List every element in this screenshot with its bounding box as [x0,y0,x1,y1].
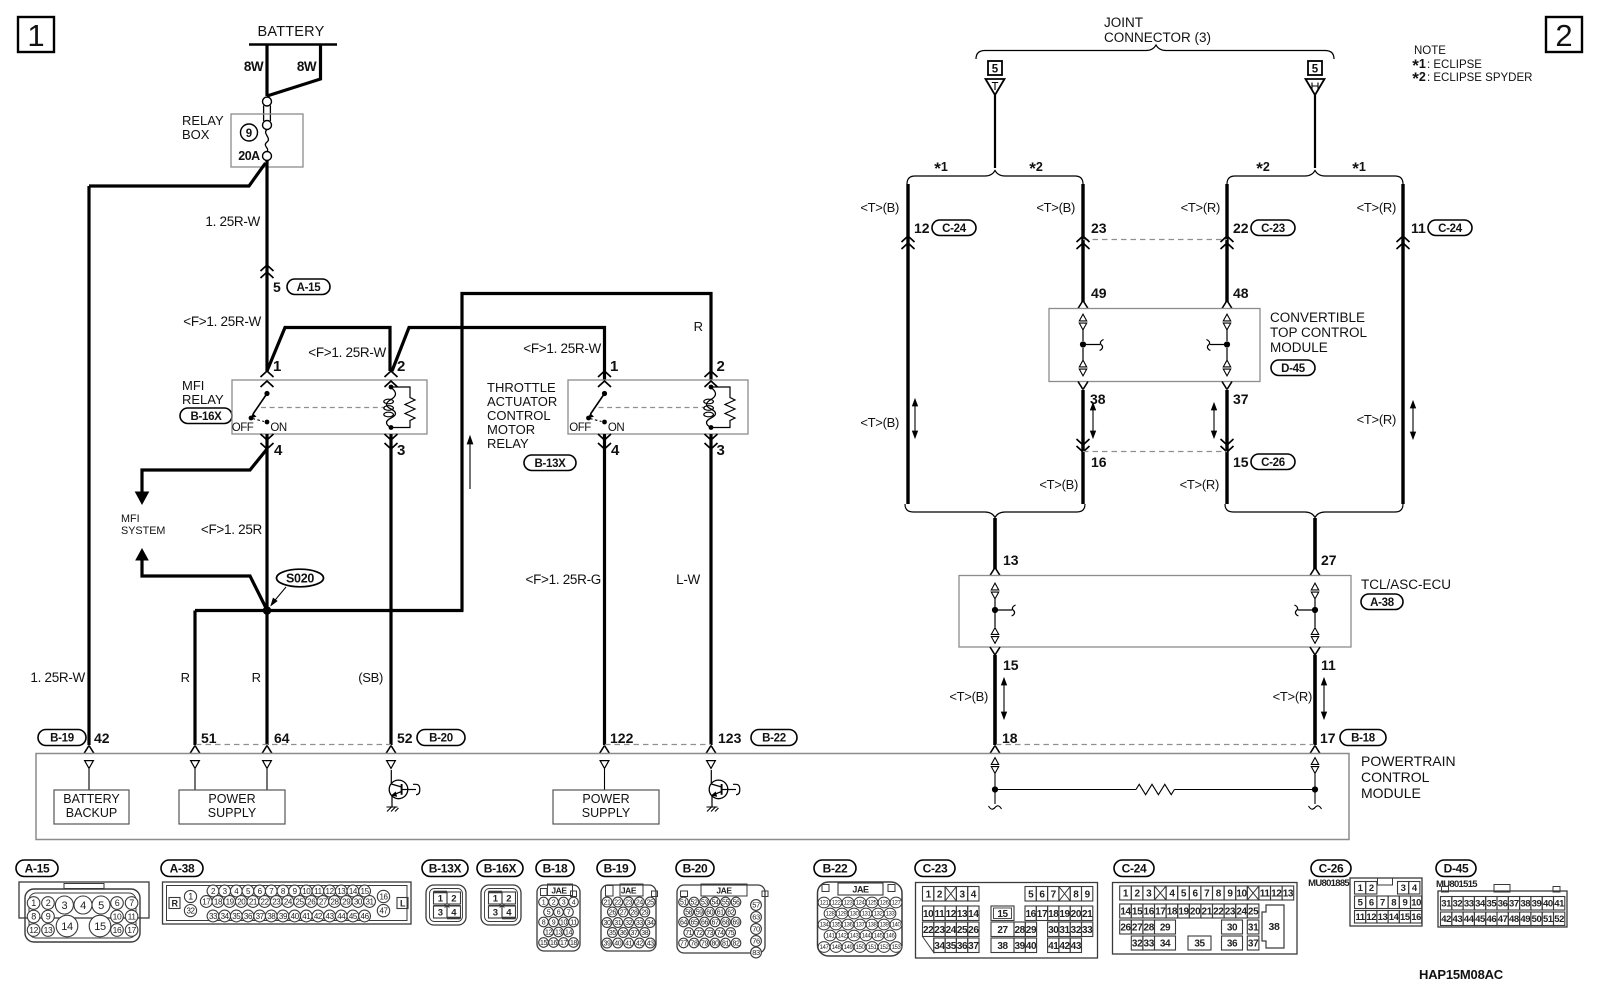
svg-text:50: 50 [1532,914,1542,925]
svg-text:<T>(R): <T>(R) [1181,200,1220,215]
wire bus line 4 <T>(R) eclipse [1401,184,1404,504]
connector C-26 pins [1355,882,1366,895]
svg-text:12: 12 [1271,889,1282,900]
svg-text:16: 16 [1411,912,1421,923]
svg-text:26: 26 [307,897,316,906]
svg-text:3: 3 [438,907,443,918]
TCL internal terminal left [991,583,998,590]
fork line2 into module [1078,301,1088,309]
PCM pin 123 terminal triangle [707,761,716,769]
svg-text:15: 15 [1233,454,1249,470]
svg-text:16: 16 [113,925,122,935]
svg-text:12: 12 [545,930,552,937]
svg-text:25: 25 [296,897,305,906]
wire bus line 3 <T>(R) spyder upper [1225,184,1228,302]
wire bus line 2 <T>(B) spyder upper [1081,184,1084,302]
svg-text:17: 17 [1037,909,1048,920]
wire battery lead right 8W [267,45,321,97]
svg-text:22: 22 [614,900,621,907]
svg-text:10: 10 [302,887,311,896]
connector B-22 label [814,860,856,877]
svg-text:11: 11 [128,912,137,922]
svg-text:: ECLIPSE: : ECLIPSE [1427,59,1482,71]
connector D-45 label [1436,860,1476,877]
svg-text:SUPPLY: SUPPLY [208,806,257,820]
svg-text:67: 67 [712,920,719,927]
svg-text:42: 42 [636,941,643,948]
svg-text:51: 51 [1543,914,1554,925]
svg-text:13: 13 [957,909,968,920]
connector C-23 label [915,860,955,877]
svg-text:2: 2 [717,358,725,375]
svg-text:16: 16 [1091,454,1107,470]
pin 42 label B-19 [38,730,86,746]
svg-text:78: 78 [691,941,698,948]
svg-text:24: 24 [1236,907,1247,918]
connector B-19 pins [602,897,612,907]
svg-text:B-22: B-22 [762,733,786,745]
wire merged left to TCL pin 13 [993,518,997,569]
svg-text:133: 133 [886,912,896,918]
svg-text:17: 17 [1320,730,1336,746]
connector A-38 pins [184,890,196,902]
page corner index box 2 [1546,17,1582,52]
svg-text:60: 60 [706,910,713,917]
svg-text:6: 6 [1039,889,1045,900]
connector B-22 pins [818,897,830,908]
svg-text:1: 1 [188,892,193,902]
svg-text:5: 5 [1312,64,1319,76]
svg-text:34: 34 [1475,899,1486,910]
svg-text:2: 2 [1135,889,1141,900]
svg-text:76: 76 [752,937,760,946]
svg-text:73: 73 [706,930,713,937]
svg-text:5: 5 [1181,889,1187,900]
svg-text:41: 41 [1554,899,1565,910]
PCM pin 52 terminal triangle [387,761,396,769]
svg-text:<T>(B): <T>(B) [1039,477,1078,492]
svg-text:46: 46 [1486,914,1496,925]
svg-text:38: 38 [1269,921,1280,933]
svg-text:131: 131 [862,912,872,918]
svg-text:<F>1. 25R-W: <F>1. 25R-W [523,341,601,356]
module internal terminal left (pin49-38) [1079,314,1086,321]
connector B-18 pins [539,897,549,907]
svg-text:OFF: OFF [569,422,591,434]
svg-text:151: 151 [868,945,878,951]
svg-text:25: 25 [957,925,968,936]
svg-text:36: 36 [1227,939,1238,950]
ground for Q1 [387,807,399,812]
svg-text:S020: S020 [286,572,314,586]
svg-text:150: 150 [856,945,866,951]
svg-text:11: 11 [1321,657,1336,673]
svg-text:B-20: B-20 [683,861,708,875]
powertrain control module box [36,754,1349,840]
svg-text:139: 139 [880,923,890,929]
wire MFI pin 4 to splice S020 [265,434,268,611]
svg-text:16: 16 [1025,909,1036,920]
svg-text:10: 10 [1411,898,1421,909]
svg-text:3: 3 [397,442,405,459]
svg-text:40: 40 [1026,941,1037,952]
svg-text:2: 2 [937,889,943,900]
fusible link 9 20A in relay box [263,97,272,106]
svg-text:15: 15 [1132,907,1143,918]
svg-text:136: 136 [844,923,854,929]
svg-text:142: 142 [838,934,848,940]
direction arrow line3 [1213,408,1215,433]
svg-text:2: 2 [506,893,511,904]
svg-text:3: 3 [493,907,498,918]
dashed connector row right [996,744,1314,746]
wire branch MFI relay pin1 to pin2 [267,328,390,372]
svg-text:<F>1. 25R: <F>1. 25R [201,522,263,537]
svg-text:54: 54 [712,900,719,907]
svg-text:11: 11 [1260,889,1271,900]
svg-text:130: 130 [850,912,860,918]
svg-text:148: 148 [832,945,842,951]
connector A-15 pin 5 pass-through chevrons [261,265,274,271]
connector A-15 pins [27,897,40,910]
wire R to PCM pin 51 [193,611,196,746]
svg-text:32: 32 [1453,899,1463,910]
svg-text:31: 31 [614,920,621,927]
connector A-38 body [163,882,412,924]
TCL/ASC-ECU box [959,576,1351,648]
svg-text:45: 45 [349,912,358,921]
svg-text:35: 35 [946,941,957,952]
svg-text:34: 34 [647,920,654,927]
svg-text:28: 28 [1144,923,1155,934]
wire branch to MFI system (out arrow) [142,449,267,494]
svg-text:8W: 8W [244,59,264,74]
svg-text:<T>(R): <T>(R) [1180,477,1219,492]
svg-text:3: 3 [1146,889,1152,900]
svg-text:13: 13 [337,887,346,896]
connector B-20 body [677,885,765,953]
svg-text:34: 34 [934,941,945,952]
svg-text:3: 3 [1401,883,1406,894]
svg-text:10: 10 [560,920,567,927]
svg-text:42: 42 [1441,914,1451,925]
svg-text:137: 137 [856,923,866,929]
svg-text:47: 47 [379,906,388,915]
svg-text:58: 58 [685,910,692,917]
node pin18 internal [992,786,998,792]
throttle relay actuation dashed link [599,407,706,409]
svg-text:34: 34 [221,912,230,921]
svg-text:23: 23 [1091,220,1107,236]
svg-text:THROTTLE: THROTTLE [487,380,556,395]
svg-text:11: 11 [570,920,577,927]
fork line3 out of module [1222,382,1232,390]
chevrons line1 C-24 crossing [902,236,915,242]
svg-text:27: 27 [1321,552,1337,568]
svg-text:145: 145 [874,934,884,940]
svg-text:16: 16 [1144,907,1155,918]
svg-text:43: 43 [647,941,654,948]
TCL internal terminal right [1311,583,1318,590]
svg-text:6: 6 [115,898,120,908]
svg-text:C-23: C-23 [1261,223,1285,235]
svg-text:POWER: POWER [582,792,629,806]
svg-text:141: 141 [826,934,836,940]
svg-text:POWER: POWER [208,792,255,806]
joint connector grouping brace top [976,45,1334,59]
connector B-16X body [481,885,521,925]
svg-text:1: 1 [926,889,932,900]
svg-text:83: 83 [752,948,760,957]
svg-text:49: 49 [1520,914,1530,925]
svg-text:36: 36 [1498,899,1508,910]
MFI relay box [232,380,427,434]
wire R riser to throttle relay pin 2 [462,294,711,611]
svg-text:25: 25 [1248,907,1259,918]
svg-text:77: 77 [680,941,687,948]
svg-text:65: 65 [691,920,698,927]
svg-text:57: 57 [752,901,760,910]
split brace right [1227,171,1403,185]
svg-text:26: 26 [1120,923,1131,934]
merge brace right [1225,504,1403,518]
svg-text:<T>(B): <T>(B) [949,689,988,704]
svg-text:2: 2 [397,358,405,375]
svg-text:8: 8 [31,912,36,922]
svg-text:8: 8 [1216,889,1222,900]
svg-text:8W: 8W [297,59,317,74]
svg-text:1: 1 [27,18,44,53]
throttle relay coil suppression resistor [711,387,735,428]
svg-text:4: 4 [274,442,283,459]
svg-text:BATTERY: BATTERY [63,792,120,806]
connector D-45 body [1438,891,1567,927]
pigtail ground pin18 [994,790,996,805]
connector A-15 body [19,882,149,918]
svg-text:23: 23 [1225,907,1236,918]
svg-text:MFI: MFI [121,513,140,525]
chevrons line2 [1077,236,1090,242]
svg-text:1. 25R-W: 1. 25R-W [30,670,85,685]
svg-text:: ECLIPSE SPYDER: : ECLIPSE SPYDER [1427,72,1532,84]
connector C-24 label [1114,860,1154,877]
svg-text:21: 21 [249,897,258,906]
svg-text:3: 3 [717,442,725,459]
svg-text:39: 39 [1014,941,1025,952]
svg-text:28: 28 [631,910,638,917]
dashed connector row left [196,744,391,746]
svg-text:<T>(R): <T>(R) [1273,689,1312,704]
svg-text:MU801515: MU801515 [1436,879,1478,890]
throttle relay switch OFF/ON [602,391,607,396]
svg-text:2: 2 [552,900,556,907]
svg-text:12: 12 [29,925,38,935]
svg-text:144: 144 [862,934,872,940]
dashed connector row mid [605,744,711,746]
svg-text:72: 72 [696,930,703,937]
svg-text:31: 31 [365,897,374,906]
throttle relay pin 1 connector chevrons [598,371,611,377]
connector C-23 body [916,883,1098,959]
svg-text:18: 18 [570,940,577,947]
svg-text:3: 3 [562,900,566,907]
svg-text:43: 43 [326,912,335,921]
svg-text:MFI: MFI [182,378,204,393]
svg-text:ON: ON [608,422,624,434]
wire joint connector right down [1314,95,1316,168]
svg-text:79: 79 [701,941,708,948]
battery backup block [54,790,129,824]
connector B-13X pins [434,892,448,904]
forks PCM pins [84,746,94,754]
svg-text:21: 21 [1082,909,1093,920]
svg-text:MODULE: MODULE [1361,785,1421,801]
svg-text:124: 124 [856,901,866,907]
svg-text:11: 11 [935,909,946,920]
svg-text:43: 43 [1071,941,1082,952]
wire TCL pin 15 to PCM pin 18 [993,655,997,745]
svg-text:14: 14 [968,909,979,920]
svg-text:7: 7 [1051,889,1057,900]
svg-text:TOP CONTROL: TOP CONTROL [1270,325,1368,340]
merge brace left [905,504,1085,518]
MFI relay actuation dashed link [261,407,385,409]
joint connector symbol left (5) [988,61,1002,75]
svg-text:SYSTEM: SYSTEM [121,525,165,537]
svg-text:20: 20 [1071,909,1082,920]
wire branch to battery backup pin 42 [89,163,266,186]
svg-text:138: 138 [868,923,878,929]
wire bus line2 lower [1081,390,1084,504]
svg-text:SUPPLY: SUPPLY [582,806,631,820]
wire bus line3 lower [1225,390,1228,504]
svg-text:6: 6 [1369,898,1374,909]
svg-text:35: 35 [1486,899,1497,910]
throttle relay coil [707,388,716,428]
svg-text:JAE: JAE [551,886,567,896]
svg-text:MU801885: MU801885 [1308,878,1350,889]
svg-text:25: 25 [647,900,654,907]
svg-text:2: 2 [451,893,456,904]
svg-text:21: 21 [1202,907,1213,918]
PCM pin 18 terminal triangles [991,758,998,765]
svg-text:34: 34 [1160,939,1171,950]
svg-text:C-23: C-23 [923,861,948,875]
svg-text:RELAY: RELAY [182,392,224,407]
svg-text:R: R [252,670,261,685]
svg-text:23: 23 [625,900,632,907]
svg-text:CONNECTOR (3): CONNECTOR (3) [1104,30,1211,45]
connector D-45 pins [1441,897,1452,911]
connector B-18 label [536,860,574,877]
svg-text:22: 22 [261,897,270,906]
svg-text:32: 32 [1071,925,1082,936]
svg-text:48: 48 [1509,914,1519,925]
transistor Q1 (pin 52 driver) [389,780,408,799]
svg-text:CONVERTIBLE: CONVERTIBLE [1270,310,1365,325]
wire L-W throttle pin 3 to PCM pin 123 [709,434,712,745]
chevrons line4 C-24 crossing [1397,236,1410,242]
connector B-16X label [477,860,523,877]
connector B-19 label [597,860,635,877]
svg-text:JAE: JAE [852,885,869,895]
svg-text:68: 68 [722,920,729,927]
svg-text:44: 44 [1464,914,1475,925]
connector B-18 body [537,885,580,951]
svg-text:59: 59 [696,910,703,917]
connector A-38 R key [169,898,180,909]
svg-text:42: 42 [94,730,110,746]
svg-text:32: 32 [625,920,632,927]
svg-text:37: 37 [256,912,265,921]
svg-text:41: 41 [625,941,632,948]
pigtail ground pin17 [1314,790,1316,805]
current flow arrow up [469,441,471,489]
svg-text:44: 44 [337,912,346,921]
connector B-13X body [426,885,466,925]
svg-text:A-15: A-15 [25,861,50,875]
svg-text:61: 61 [717,910,724,917]
svg-text:152: 152 [880,945,890,951]
dashed link 16-15 [1083,451,1227,453]
wire branch MFI pin2 to throttle relay pin1 [392,328,605,381]
svg-text:C-26: C-26 [1261,457,1285,469]
svg-text:15: 15 [997,909,1008,920]
splice node S020 label [277,569,324,587]
svg-text:37: 37 [1248,939,1259,950]
svg-text:<F>1. 25R-W: <F>1. 25R-W [308,345,386,360]
svg-text:R: R [694,319,703,334]
svg-text:A-15: A-15 [297,282,322,294]
svg-text:38: 38 [997,941,1008,952]
svg-text:14: 14 [565,930,572,937]
svg-text:63: 63 [752,913,760,922]
svg-text:35: 35 [609,930,616,937]
svg-text:B-20: B-20 [429,733,453,745]
svg-text:19: 19 [1178,907,1189,918]
svg-text:22: 22 [923,925,934,936]
svg-text:46: 46 [361,912,370,921]
svg-text:28: 28 [331,897,340,906]
PCM pin 64 terminal triangle [263,761,272,769]
svg-text:12: 12 [326,887,335,896]
fork TCL pin 15 out [990,647,1000,655]
svg-text:OFF: OFF [232,422,254,434]
ground for Q2 [707,807,719,812]
wire joint connector left down [994,95,996,168]
svg-text:37: 37 [631,930,638,937]
svg-text:<T>(B): <T>(B) [1036,200,1075,215]
wire R splice to PCM pin 64 [265,611,268,746]
svg-text:D-45: D-45 [1281,363,1306,375]
svg-text:14: 14 [61,921,73,933]
svg-text:35: 35 [1194,939,1205,950]
svg-text:140: 140 [892,923,902,929]
svg-text:143: 143 [850,934,860,940]
svg-text:C-26: C-26 [1319,861,1344,875]
svg-text:9: 9 [552,920,556,927]
transistor Q2 (pin 123 driver) [709,780,728,799]
svg-text:TCL/ASC-ECU: TCL/ASC-ECU [1361,577,1451,592]
svg-text:RELAY: RELAY [487,436,529,451]
svg-text:4: 4 [1169,889,1175,900]
connector C-24 body [1113,883,1298,955]
MFI relay coil suppression resistor [391,387,415,428]
svg-text:81: 81 [722,941,729,948]
svg-text:123: 123 [844,901,854,907]
svg-text:52: 52 [397,730,413,746]
svg-text:B-18: B-18 [543,861,568,875]
